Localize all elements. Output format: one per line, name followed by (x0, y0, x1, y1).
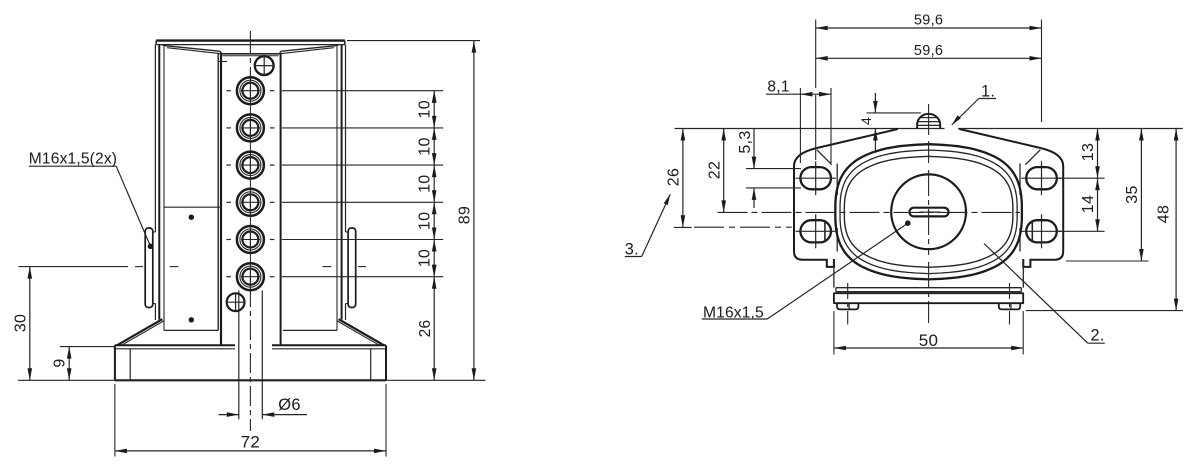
right view: leader M16x1,5 (702, 220, 911, 321)
left view: base plate (115, 345, 386, 380)
svg-text:1.: 1. (981, 82, 995, 100)
svg-text:59,6: 59,6 (914, 43, 943, 59)
right view: dimension 13 (1080, 129, 1100, 179)
left view: ground/extension line (18, 379, 486, 381)
right view: dimension 8,1 (766, 78, 831, 96)
svg-text:9: 9 (52, 358, 69, 367)
left view: dimension 72 extension lines (115, 384, 386, 457)
left view: counterbored holes column (6x) (226, 77, 274, 290)
right view: dimension 22 (706, 129, 726, 213)
right view: dimension 50 (834, 331, 1023, 350)
right view: housing middle ring (840, 150, 1017, 274)
right view: 13-14 extension lines (1057, 178, 1105, 231)
left view: dimension 30 (12, 267, 32, 381)
svg-text:10: 10 (416, 137, 433, 155)
left view: right flange boss M16 (346, 228, 356, 308)
right view: lower-right slot (1021, 214, 1061, 248)
right view: dimension 35 (1124, 129, 1144, 262)
left view: panel screw dot upper (189, 215, 194, 220)
left view: panel screw dot lower (189, 317, 194, 322)
left view: dimension 26 (417, 277, 437, 381)
svg-text:89: 89 (456, 206, 473, 224)
left view: dimension 9 (52, 347, 72, 381)
svg-text:Ø6: Ø6 (278, 396, 301, 414)
right view: 48 extension line (1026, 310, 1183, 312)
svg-text:30: 30 (12, 314, 29, 332)
svg-text:2.: 2. (1091, 327, 1105, 345)
left view: label M16x1,5(2x) (29, 150, 154, 249)
right view: right ear flange (1020, 148, 1063, 267)
right view: base bar (834, 293, 1023, 303)
right view: 50 extension lines (834, 311, 1023, 355)
left view: hole-center extension lines (282, 91, 443, 277)
svg-text:22: 22 (706, 161, 723, 179)
svg-text:35: 35 (1124, 185, 1141, 203)
left view: column side edges (221, 53, 281, 346)
left view: left wall panel (164, 47, 221, 331)
right view: roof slant left (816, 129, 898, 148)
svg-text:13: 13 (1080, 143, 1097, 161)
right view: upper-left slot (796, 161, 836, 195)
right view: dimension 59,6 upper (816, 13, 1042, 31)
svg-text:14: 14 (1080, 195, 1097, 213)
right view: upper-right slot (1021, 161, 1061, 195)
right view: side edges below ears (834, 267, 1023, 288)
right view: 59,6 extension lines (816, 20, 1042, 123)
right view: upper thin bar (836, 288, 1021, 292)
right view: dimension 5,3 (737, 129, 801, 209)
left view: right wall outer edge (double line) (342, 45, 346, 320)
left view: dimension 9 extension (60, 346, 116, 348)
right view: leader 2. (984, 244, 1105, 345)
svg-text:8,1: 8,1 (767, 78, 789, 95)
svg-text:5,3: 5,3 (737, 130, 754, 153)
svg-text:10: 10 (416, 212, 433, 230)
right view: horizontal centerline (718, 211, 1021, 213)
left view: right wall panel (283, 47, 337, 331)
left view: vertical centerline (249, 31, 251, 431)
right view: left foot (837, 303, 858, 309)
svg-text:26: 26 (417, 320, 434, 338)
right view: leader 3. (625, 194, 671, 258)
right view: dimension 48 (1156, 129, 1179, 311)
left view: Ø6 hole edges (239, 291, 262, 420)
right view: dimension 14 (1080, 178, 1100, 231)
svg-text:50: 50 (919, 331, 939, 350)
svg-text:26: 26 (665, 168, 682, 186)
right view: leader 1. (952, 82, 996, 125)
left view: column top edge (220, 51, 282, 56)
svg-text:3.: 3. (625, 240, 639, 258)
right view: top button/bump (917, 114, 940, 129)
left view: left foot slope (117, 319, 164, 345)
left view: cap top extension line (347, 40, 480, 42)
left view: flange centerline left (19, 266, 179, 268)
left view: dimension 89 (456, 41, 476, 381)
left view: bottom phillips screw (226, 293, 245, 312)
left view: dimension 10 chain (416, 91, 436, 277)
left view: dimension Ø6 (219, 396, 308, 417)
right view: vertical centerline (928, 104, 930, 323)
right view: 8,1 extension lines (800, 88, 831, 163)
left view: left wall outer edge (double line) (155, 45, 159, 320)
right view: roof slant right (959, 129, 1041, 148)
right view: top edge / extension line (675, 128, 1183, 130)
right view: 35 extension line (1066, 260, 1149, 262)
svg-text:10: 10 (416, 174, 433, 192)
right view: keyway slot (910, 208, 949, 217)
right view: right foot (999, 303, 1020, 309)
right view: dimension 4 (858, 93, 921, 153)
svg-text:M16x1,5(2x): M16x1,5(2x) (29, 150, 117, 167)
left view: top phillips screw (219, 55, 274, 75)
svg-text:59,6: 59,6 (914, 13, 943, 29)
svg-text:4: 4 (858, 117, 874, 125)
right view: foot centerlines (848, 283, 1010, 325)
right view: housing outline outer ring (835, 144, 1022, 279)
left view: dimension 72 (115, 432, 386, 453)
left view: flange centerline right (323, 266, 367, 268)
left view: housing top cap (156, 41, 345, 45)
right view: lower-slot centerline dash (694, 226, 792, 228)
right view: lower-left slot (796, 214, 836, 248)
right view: left ear flange (794, 148, 837, 267)
svg-text:10: 10 (416, 249, 433, 267)
right view: central bore circle (891, 174, 966, 249)
left view: right foot slope (337, 319, 384, 345)
right view: dimension 59,6 lower (816, 43, 1042, 61)
left view: top V-chamfer edges (163, 45, 339, 53)
left view: left flange boss M16 (145, 228, 155, 308)
svg-text:48: 48 (1156, 205, 1173, 223)
svg-text:72: 72 (241, 432, 261, 451)
right view: housing inner ring (844, 156, 1013, 267)
right view: dimension 26 (665, 129, 691, 228)
svg-text:10: 10 (416, 100, 433, 118)
